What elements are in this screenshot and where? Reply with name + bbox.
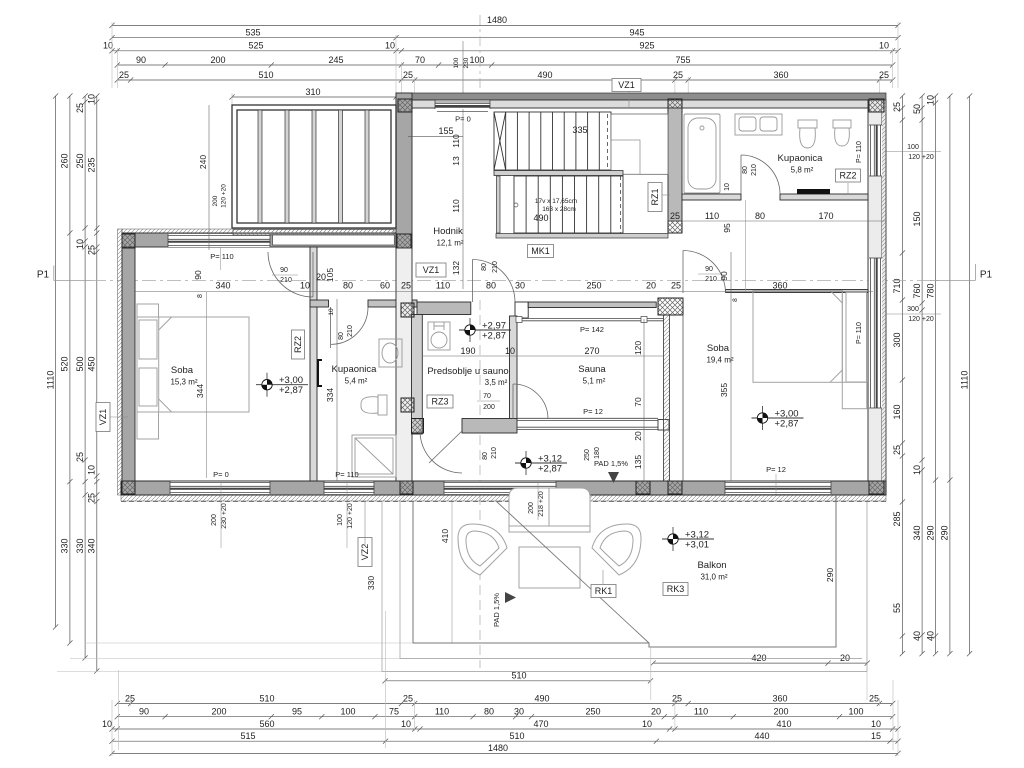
extension risers to bottom dim rows [118, 670, 120, 750]
hatch block top-right corner [869, 99, 884, 112]
door predsoblje to sauna (70/200) [513, 384, 548, 419]
sauna partition wall [510, 316, 518, 420]
svg-text:+3,01: +3,01 [685, 540, 709, 551]
svg-text:180: 180 [594, 447, 601, 459]
door hodnik to predsoblje corridor (80/210) [473, 260, 516, 303]
extension risers bottom dim rows [112, 698, 898, 756]
label box VZ2 bottom [358, 538, 372, 567]
svg-text:10: 10 [925, 95, 935, 105]
svg-text:P= 110: P= 110 [335, 470, 358, 479]
hatch block bottom wall hall [668, 481, 682, 494]
svg-text:PAD 1,5%: PAD 1,5% [594, 459, 628, 468]
svg-text:260: 260 [60, 153, 70, 168]
dimension row bottom 10/560/10/470/10/410/10 [102, 719, 901, 732]
stair mid rail band [494, 171, 623, 176]
dim 410 balcony rot [440, 502, 452, 643]
svg-text:95: 95 [722, 223, 732, 233]
table balcony [519, 547, 580, 588]
dimension row top 25/510/25/490/25/360/25 [115, 70, 896, 83]
door label 80/210 hodnik-predsoblje rot [481, 261, 499, 273]
bottom exterior wall [121, 481, 886, 495]
svg-text:15,3 m²: 15,3 m² [170, 378, 197, 387]
right window spec labels 120+20 [877, 144, 941, 323]
svg-text:10: 10 [879, 41, 889, 51]
label box RK3 balkon [663, 583, 688, 596]
svg-text:RZ2: RZ2 [839, 171, 856, 181]
toilet kupaonica mid-left [378, 395, 387, 415]
svg-text:15: 15 [871, 731, 881, 741]
stair upper flight [494, 112, 611, 170]
svg-text:P= 0: P= 0 [213, 470, 229, 479]
interior dim 20/105 near door [316, 268, 335, 282]
svg-text:135: 135 [633, 455, 643, 469]
svg-text:200: 200 [210, 55, 225, 65]
label box RZ2 kupaonica mid [292, 330, 305, 359]
kupaonica right wall [396, 248, 412, 481]
svg-text:110: 110 [451, 134, 461, 148]
label box VZ1 left wall [96, 403, 110, 432]
dimension row 310 pergola [229, 87, 398, 100]
svg-text:110: 110 [436, 281, 450, 291]
bottom exterior wall tone [121, 481, 886, 495]
interior dims predsoblje 190/10 [422, 346, 517, 356]
door label 90/210 soba right [698, 266, 722, 283]
pergola right wall [396, 93, 412, 248]
top wall of left rooms insulation strip [122, 229, 412, 234]
interior dim 355 soba right rot [719, 296, 731, 481]
balcony slab inner edge right [835, 502, 837, 647]
dimension row top 10/525/10/925/10 [103, 41, 901, 54]
svg-text:360: 360 [772, 693, 787, 703]
svg-text:10: 10 [102, 719, 112, 729]
svg-text:25: 25 [673, 70, 683, 80]
door corridor to predsoblje (80/210) [420, 431, 462, 473]
dimension row bottom 420/20 [651, 653, 870, 666]
svg-text:10: 10 [87, 94, 97, 104]
svg-text:Predsoblje u sauno: Predsoblje u sauno [427, 366, 508, 377]
bed soba right [753, 291, 867, 409]
svg-text:PAD 1,5%: PAD 1,5% [492, 593, 501, 627]
svg-text:19,4 m²: 19,4 m² [706, 356, 733, 365]
svg-text:360: 360 [772, 281, 787, 291]
pergola frame [232, 105, 396, 228]
svg-text:440: 440 [754, 731, 769, 741]
left dim col 235/450/340 [87, 93, 100, 673]
interior dim 95/10 bath [722, 183, 746, 291]
double sink top-right [735, 114, 782, 135]
svg-text:270: 270 [584, 346, 599, 356]
svg-text:470: 470 [533, 719, 548, 729]
stairwell south wall band [496, 234, 668, 239]
svg-text:132: 132 [451, 261, 461, 275]
hatch block bottom wall mid [636, 481, 650, 494]
svg-text:200: 200 [773, 707, 788, 717]
door label 80/210 kupaonica rot [338, 325, 354, 340]
door label 80/210 bath [742, 164, 758, 176]
svg-text:120 +20: 120 +20 [221, 184, 228, 208]
svg-text:25: 25 [87, 493, 97, 503]
interior dims sauna 270 / P=142 / P=12 [517, 325, 664, 416]
pergola threshold white strip [273, 235, 395, 245]
svg-text:95: 95 [292, 707, 302, 717]
bed soba left [137, 317, 249, 412]
mirror bar on soba/kupaonica wall [318, 360, 322, 386]
room label sauna [578, 364, 606, 386]
svg-text:10: 10 [724, 183, 731, 191]
sauna right wall hatched [664, 315, 670, 481]
room label hodnik [433, 226, 464, 248]
svg-text:344: 344 [195, 384, 205, 398]
svg-text:120 +20: 120 +20 [908, 154, 934, 161]
door bath top-right (80/210) [741, 155, 780, 194]
leader line VZ1 top [628, 91, 630, 107]
right dim col 780/290/40 [925, 93, 938, 656]
svg-text:10: 10 [328, 308, 335, 316]
chair balcony left [458, 524, 507, 575]
svg-text:410: 410 [440, 529, 450, 543]
svg-text:20: 20 [840, 653, 850, 663]
svg-text:10: 10 [505, 346, 515, 356]
svg-text:210: 210 [491, 447, 498, 459]
svg-text:340: 340 [912, 525, 922, 540]
room label soba right [706, 343, 733, 365]
window dim label 100 120+20 bottom mid [337, 481, 354, 548]
svg-text:100: 100 [848, 707, 863, 717]
svg-text:110: 110 [451, 199, 461, 213]
svg-text:Soba: Soba [171, 365, 194, 376]
svg-text:25: 25 [125, 693, 135, 703]
svg-text:25: 25 [869, 693, 879, 703]
svg-text:+2,87: +2,87 [775, 419, 799, 430]
vertical axis dash line top x480 [479, 15, 481, 90]
door label 70/200 sauna [477, 393, 500, 411]
door hall to kupaonica mid (80/210) [331, 307, 368, 348]
nightstands bed left [137, 304, 159, 439]
hatch block top wall left [398, 99, 412, 112]
PAD 1,5% balcony rotated with triangle [492, 592, 516, 627]
svg-text:190: 190 [460, 346, 475, 356]
svg-text:20: 20 [651, 707, 661, 717]
svg-text:25: 25 [671, 281, 681, 291]
interior dim 344 soba left rot [195, 292, 207, 478]
svg-text:70: 70 [633, 397, 643, 407]
svg-text:150: 150 [912, 211, 922, 226]
svg-text:10: 10 [385, 41, 395, 51]
hatch block kupaonica wall top repaint [401, 303, 414, 317]
vertical axis dash line balcony [479, 300, 481, 668]
svg-text:80: 80 [481, 263, 488, 271]
right wall soba window P=110 [869, 258, 882, 408]
svg-text:780: 780 [925, 283, 935, 298]
balcony slab edges [382, 495, 867, 672]
svg-text:925: 925 [639, 41, 654, 51]
dim 90 soba-right door col [730, 252, 732, 296]
P1 section dash-dot line across plan [92, 280, 940, 282]
elevation marker soba right +3,00/+2,87 [752, 406, 804, 430]
svg-text:300: 300 [892, 332, 902, 347]
hatch block pergola wall bottom [397, 234, 411, 248]
svg-text:10: 10 [300, 281, 310, 291]
leader line RK1 [602, 570, 604, 584]
hatch block bottom wall mid-left [400, 481, 413, 494]
svg-text:+2,87: +2,87 [482, 331, 506, 342]
sauna glazing line top [517, 318, 664, 320]
leader line RZ2 bath [847, 183, 849, 194]
rotated shaft dims 100/230 top [453, 57, 470, 68]
window dim label 200 230+20 bottom left [211, 481, 228, 548]
hatch block left wall top [122, 234, 135, 248]
svg-text:3,5 m²: 3,5 m² [485, 378, 508, 387]
stair landing shaft rect [611, 140, 640, 174]
svg-text:1110: 1110 [45, 371, 55, 390]
bath interior wall bottom right [780, 194, 868, 200]
hodnik south wall mid piece [368, 300, 417, 307]
svg-text:Soba: Soba [707, 343, 730, 354]
room label balkon [697, 560, 727, 582]
svg-text:290: 290 [825, 568, 835, 582]
stair window inner sill line [437, 111, 488, 113]
svg-text:360: 360 [773, 70, 788, 80]
svg-text:80: 80 [338, 332, 345, 340]
interior dim 334 kupaonica rot [325, 299, 337, 481]
shower predsoblje [428, 322, 450, 350]
svg-text:25: 25 [87, 245, 97, 255]
svg-text:210: 210 [751, 164, 758, 176]
svg-text:50: 50 [912, 104, 922, 114]
left dim col 260/520/330 [60, 93, 73, 645]
svg-text:755: 755 [675, 55, 690, 65]
svg-text:355: 355 [719, 383, 729, 397]
bottom wall window P=110 [324, 481, 374, 494]
svg-text:240: 240 [198, 155, 208, 169]
room label soba left [170, 365, 197, 387]
balcony diagonal line [496, 501, 649, 643]
svg-text:25: 25 [119, 70, 129, 80]
top wall of left rooms [122, 233, 412, 247]
pergola beams [258, 110, 369, 223]
right wall bathroom window [869, 125, 882, 176]
svg-text:300: 300 [907, 306, 919, 313]
left exterior wall [122, 233, 135, 495]
svg-text:25: 25 [75, 452, 85, 462]
P1 section line right [930, 264, 993, 281]
dimension row bottom 25/510/25/490/25/360/25 [115, 693, 896, 706]
label box RZ3 predsoblje [427, 395, 453, 408]
exterior dashed line below bottom wall [121, 501, 886, 503]
svg-text:200: 200 [211, 514, 218, 526]
leader line VZ1 left [110, 416, 128, 418]
svg-text:5,8 m²: 5,8 m² [791, 166, 814, 175]
hatch block soba wall top [658, 298, 683, 315]
svg-text:100: 100 [453, 57, 460, 68]
svg-text:80: 80 [755, 211, 765, 221]
label box RZ2 bath top [836, 169, 861, 182]
svg-text:13: 13 [451, 156, 461, 166]
elevation marker soba left +3,00/+2,87 [256, 373, 308, 397]
svg-text:200: 200 [528, 502, 535, 514]
svg-text:90: 90 [139, 707, 149, 717]
svg-text:200: 200 [212, 195, 219, 206]
soba2 west boundary line [682, 315, 684, 481]
bottom wall balcony slider [444, 481, 556, 494]
svg-text:285: 285 [892, 511, 902, 526]
svg-text:31,0 m²: 31,0 m² [700, 573, 727, 582]
svg-text:RZ2: RZ2 [293, 336, 303, 353]
pergola bottom hatched strip [233, 230, 394, 236]
svg-text:290: 290 [940, 525, 950, 540]
svg-text:12,1 m²: 12,1 m² [436, 239, 463, 248]
hatch block interior wall mid [401, 398, 414, 412]
svg-text:10: 10 [75, 239, 85, 249]
label box MK1 stairs [528, 245, 554, 258]
stair landing rect [611, 114, 668, 174]
predsoblje top wall [417, 302, 471, 315]
svg-text:1480: 1480 [487, 15, 507, 25]
svg-text:210: 210 [492, 261, 499, 273]
svg-text:490: 490 [537, 70, 552, 80]
right exterior wall insulation stripe [882, 100, 887, 495]
predsoblje left inner wall [412, 315, 423, 435]
svg-text:P= 12: P= 12 [583, 407, 603, 416]
left exterior wall insulation strip [118, 229, 123, 495]
svg-text:P1: P1 [980, 270, 993, 281]
svg-text:25: 25 [403, 693, 413, 703]
svg-text:Kupaonica: Kupaonica [332, 364, 378, 375]
svg-text:VZ1: VZ1 [618, 80, 635, 90]
dimension row bottom 510 balcony [382, 671, 653, 684]
svg-text:510: 510 [511, 671, 526, 681]
svg-text:Hodnik: Hodnik [433, 226, 463, 237]
svg-text:510: 510 [509, 731, 524, 741]
hatch block left wall bottom [122, 481, 135, 494]
svg-text:10: 10 [871, 719, 881, 729]
svg-text:120 +20: 120 +20 [347, 503, 354, 529]
shower kupaonica mid-left [352, 435, 396, 477]
interior dims bath 25/110/80/170 [668, 211, 886, 224]
left dim col 250/500/330 [75, 93, 88, 660]
extension lines balcony to left dim band [85, 642, 413, 644]
extension risers top dim rows [112, 22, 898, 106]
svg-text:30: 30 [514, 707, 524, 717]
svg-text:160: 160 [892, 404, 902, 419]
svg-text:RZ3: RZ3 [431, 397, 448, 407]
svg-text:200: 200 [483, 404, 495, 411]
svg-text:210: 210 [705, 276, 717, 283]
label box VZ1 corridor [416, 263, 446, 277]
svg-text:210: 210 [280, 277, 292, 284]
svg-text:1110: 1110 [959, 371, 969, 390]
door corridor to soba right (90/210) [683, 251, 726, 294]
hatch block bottom-right corner [869, 481, 884, 494]
svg-text:MK1: MK1 [531, 246, 550, 256]
vertical axis solid line top [462, 41, 464, 123]
svg-text:110: 110 [705, 211, 719, 221]
svg-text:250: 250 [585, 707, 600, 717]
svg-text:80: 80 [482, 452, 489, 460]
elevation marker corridor +3,12/+2,87 [515, 451, 567, 475]
svg-text:230: 230 [463, 57, 470, 68]
leader line RZ1 [662, 194, 670, 196]
svg-text:10: 10 [912, 465, 922, 475]
svg-text:330: 330 [366, 576, 376, 590]
svg-text:25: 25 [892, 102, 902, 112]
svg-text:Balkon: Balkon [697, 560, 726, 571]
svg-text:Sauna: Sauna [578, 364, 606, 375]
svg-text:10: 10 [642, 719, 652, 729]
svg-text:P1: P1 [37, 270, 50, 281]
svg-text:VZ1: VZ1 [423, 265, 440, 275]
right dim col 150/760/340/40 [912, 93, 925, 656]
dimension row top 90/200/245/70/100/755 [115, 55, 896, 68]
elevation marker predsoblje +2,97/+2,87 [459, 318, 511, 342]
svg-text:30: 30 [515, 281, 525, 291]
stair tread note [514, 198, 577, 213]
svg-text:200: 200 [211, 707, 226, 717]
bath threshold bar [797, 189, 830, 194]
svg-text:75: 75 [389, 707, 399, 717]
svg-text:170: 170 [818, 211, 833, 221]
svg-text:100: 100 [907, 144, 919, 151]
svg-text:20: 20 [646, 281, 656, 291]
svg-text:560: 560 [259, 719, 274, 729]
svg-text:+2,87: +2,87 [538, 464, 562, 475]
svg-text:25: 25 [670, 211, 680, 221]
hodnik south wall left piece [310, 300, 329, 307]
hatch block stair wall bottom [668, 221, 682, 233]
svg-text:90: 90 [705, 266, 713, 273]
left room top window P=110 [168, 234, 270, 247]
top wall stair window [435, 101, 490, 110]
svg-text:P= 0: P= 0 [455, 115, 471, 124]
interior wall soba/hall vertical [310, 247, 317, 481]
door hall to soba left (90/210) [268, 252, 313, 297]
label box RK1 balkon [591, 585, 616, 598]
svg-text:340: 340 [87, 538, 97, 553]
svg-text:490: 490 [534, 693, 549, 703]
svg-text:25: 25 [892, 445, 902, 455]
svg-text:120 +20: 120 +20 [908, 316, 934, 323]
stair lower flight west stringer [497, 176, 501, 233]
svg-text:8: 8 [197, 294, 204, 298]
svg-text:110: 110 [435, 707, 449, 717]
sofa balcony [509, 488, 590, 532]
dimension row top 1480 [109, 15, 900, 28]
svg-text:20: 20 [633, 431, 643, 441]
interior wall hall/bath vertical [668, 108, 682, 221]
PAD 1,5% corridor with triangle [594, 459, 628, 483]
svg-text:Kupaonica: Kupaonica [778, 153, 824, 164]
svg-text:100: 100 [469, 55, 484, 65]
svg-text:450: 450 [87, 356, 97, 371]
svg-text:100: 100 [337, 514, 344, 526]
svg-text:510: 510 [259, 693, 274, 703]
svg-text:500: 500 [75, 356, 85, 371]
chair balcony right [592, 524, 641, 575]
stair cut dashed lines [607, 114, 609, 170]
svg-text:330: 330 [75, 538, 85, 553]
right dim col 290 outer [940, 93, 953, 656]
svg-text:760: 760 [912, 283, 922, 298]
svg-text:P= 110: P= 110 [210, 252, 233, 261]
room label kupaonica mid [332, 364, 378, 386]
svg-text:70: 70 [415, 55, 425, 65]
hatch block interior wall top [401, 303, 414, 317]
bottom wall window P=0 [170, 481, 270, 494]
svg-text:10: 10 [87, 465, 97, 475]
right dim col 1110 [959, 93, 972, 656]
bathtub top-right [684, 114, 720, 193]
svg-text:P= 142: P= 142 [580, 325, 604, 334]
